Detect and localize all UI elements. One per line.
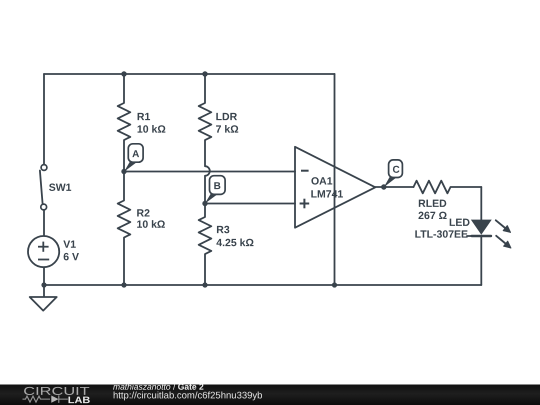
svg-text:LAB: LAB [68, 395, 91, 405]
svg-text:http://circuitlab.com/c6f25hnu: http://circuitlab.com/c6f25hnu339yb [113, 390, 262, 401]
svg-text:R2: R2 [136, 207, 150, 219]
svg-text:4.25 kΩ: 4.25 kΩ [216, 237, 254, 249]
svg-text:10 kΩ: 10 kΩ [136, 219, 165, 231]
svg-text:OA1: OA1 [311, 176, 333, 188]
svg-text:6 V: 6 V [63, 251, 79, 263]
svg-text:LTL-307EE: LTL-307EE [415, 229, 468, 241]
svg-text:7 kΩ: 7 kΩ [216, 124, 239, 136]
svg-text:B: B [214, 181, 221, 192]
svg-text:10 kΩ: 10 kΩ [137, 124, 166, 136]
svg-text:R3: R3 [216, 224, 230, 236]
svg-text:SW1: SW1 [49, 182, 72, 194]
svg-text:LED: LED [449, 217, 470, 229]
svg-text:LM741: LM741 [311, 189, 344, 201]
svg-text:A: A [132, 149, 139, 160]
svg-text:V1: V1 [63, 239, 76, 251]
svg-text:R1: R1 [137, 111, 151, 123]
svg-text:RLED: RLED [418, 198, 447, 210]
svg-text:C: C [392, 165, 399, 176]
svg-text:267 Ω: 267 Ω [418, 210, 447, 222]
svg-text:LDR: LDR [216, 111, 238, 123]
